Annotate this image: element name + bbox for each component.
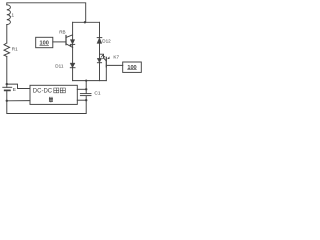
wire step to DC-DC input top xyxy=(7,84,30,88)
wire mid horizontal xyxy=(73,80,107,82)
node dot left upper xyxy=(6,83,8,85)
wire battery to lower node xyxy=(6,90,8,100)
wire R1 to battery xyxy=(6,57,8,88)
LED diode of K7 xyxy=(97,58,101,62)
box label second line 块 blob xyxy=(49,97,52,102)
phototransistor of K7 xyxy=(100,54,104,58)
wire D12 to K7 LED xyxy=(99,43,101,58)
resistor box 100 left xyxy=(36,37,53,47)
svg-text:DC-DC: DC-DC xyxy=(33,88,53,94)
wire DC-DC output top xyxy=(77,88,86,90)
node dot rail2 xyxy=(84,21,86,23)
wire rail2 down to D12 xyxy=(99,22,101,37)
wire left vertical to bottom rail xyxy=(7,100,86,113)
resistor R1 xyxy=(4,43,10,57)
svg-text:K7: K7 xyxy=(113,55,119,60)
svg-text:C1: C1 xyxy=(94,91,100,97)
svg-text:R1: R1 xyxy=(12,46,18,51)
battery E xyxy=(3,86,12,88)
resistor box 100 right xyxy=(123,62,142,72)
svg-text:D12: D12 xyxy=(102,38,111,43)
DC-DC module box xyxy=(30,85,77,104)
node dot left lower xyxy=(6,100,8,102)
svg-text:D11: D11 xyxy=(55,64,64,69)
wire rail2 xyxy=(73,21,100,23)
transistor RB with body diode xyxy=(71,40,75,44)
capacitor C1 xyxy=(85,81,87,94)
svg-text:E: E xyxy=(13,87,16,93)
wire L1 to R1 xyxy=(6,25,8,43)
emission arrows xyxy=(101,55,103,57)
wire base of K7 to box xyxy=(106,64,122,66)
svg-text:100: 100 xyxy=(127,65,136,71)
node dot at C1 top tap xyxy=(85,80,87,82)
wire box to base xyxy=(53,41,66,43)
diode D11 xyxy=(70,63,75,67)
svg-text:L1: L1 xyxy=(9,13,15,18)
wire to DC-DC input bottom xyxy=(7,100,30,102)
inductor L1 xyxy=(7,5,11,25)
svg-text:100: 100 xyxy=(40,41,49,47)
node dot output top xyxy=(85,88,87,90)
wire collector drop to RB xyxy=(72,22,74,39)
wire DC-DC output bottom xyxy=(77,99,86,101)
wire D11 branch vertical xyxy=(72,47,74,80)
node dot output bottom xyxy=(85,99,87,101)
wire top rail and riser xyxy=(7,3,86,23)
diode D12 xyxy=(97,37,102,39)
svg-text:RB: RB xyxy=(59,29,65,34)
